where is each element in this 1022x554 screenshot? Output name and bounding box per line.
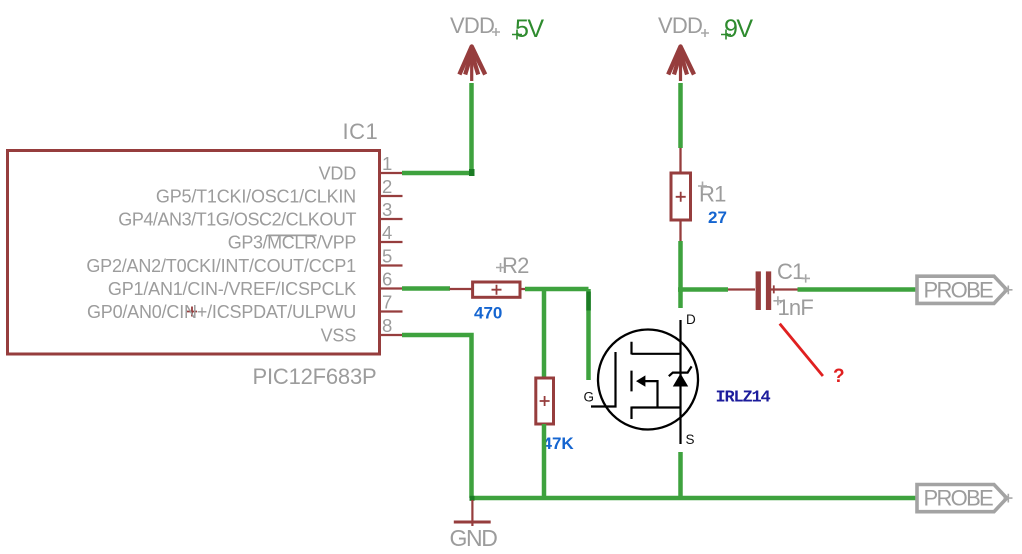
origin cross VDD label 2 (701, 29, 709, 37)
svg-text:VDD: VDD (450, 13, 494, 38)
resistor R1 (671, 148, 691, 241)
wire R2 to gate node (525, 287, 589, 292)
wire VDD2 supply to R1 (678, 83, 683, 148)
svg-text:IC1: IC1 (343, 119, 379, 144)
wire drain node to C1 (678, 287, 728, 292)
svg-text:1: 1 (382, 153, 392, 174)
mosfet gate lead (591, 352, 616, 407)
IC1 pin 7 GP0 (87, 291, 403, 322)
IC1 pin 1 VDD (319, 153, 403, 184)
capacitor C1 (728, 271, 798, 310)
supply symbol VDD (9V) arrow (668, 47, 694, 82)
svg-text:C1: C1 (777, 259, 804, 284)
svg-text:470: 470 (474, 304, 502, 323)
svg-text:GND: GND (450, 525, 498, 551)
gnd rail wire (472, 496, 918, 501)
origin cross C1 (802, 274, 811, 282)
svg-text:GP5/T1CKI/OSC1/CLKIN: GP5/T1CKI/OSC1/CLKIN (156, 186, 356, 206)
IC1 box (8, 151, 380, 355)
svg-text:5: 5 (382, 245, 392, 266)
mosfet D-S vertical line (679, 320, 681, 444)
origin cross 5V (512, 30, 522, 40)
body diode triangle (673, 374, 688, 387)
IC1 pin 3 GP4 (118, 199, 402, 230)
svg-text:VSS: VSS (321, 325, 357, 345)
wire pin6 to R2 (402, 286, 450, 291)
wire pin1 to VDD supply (402, 83, 472, 173)
wire node down to gate (586, 289, 591, 380)
svg-text:D: D (686, 312, 696, 327)
wire overlap dot rail corner (470, 496, 475, 501)
mosfet channel dashes (630, 342, 632, 419)
svg-text:6: 6 (382, 268, 392, 289)
svg-text:GP4/AN3/T1G/OSC2/CLKOUT: GP4/AN3/T1G/OSC2/CLKOUT (118, 209, 356, 229)
IC1 pin 5 GP2 (86, 245, 402, 276)
wire overlap segment gate wire (586, 292, 591, 311)
svg-text:IRLZ14: IRLZ14 (716, 389, 771, 408)
supply symbol VDD (5V) arrow (459, 47, 485, 82)
annotation red line (780, 324, 823, 376)
svg-text:VDD: VDD (319, 163, 357, 183)
wire pin8 to gnd rail (402, 335, 472, 498)
svg-text:5V: 5V (515, 15, 544, 43)
svg-text:GP0/AN0/CIN+/ICSPDAT/ULPWU: GP0/AN0/CIN+/ICSPDAT/ULPWU (87, 302, 356, 322)
IC1 pin 6 GP1 (108, 268, 403, 299)
svg-text:2: 2 (382, 176, 392, 197)
IC1 pin 8 VSS (321, 315, 403, 346)
svg-text:4: 4 (382, 222, 392, 243)
svg-text:9V: 9V (724, 15, 753, 43)
connector PROBE1 flag (917, 276, 1013, 303)
ground symbol GND (454, 500, 491, 526)
wire drain node to mosfet D (678, 290, 683, 309)
wire 47K to gnd rail (542, 424, 547, 498)
origin cross R2 (496, 263, 505, 272)
origin cross 1nF (773, 296, 782, 305)
resistor R2 (450, 282, 544, 297)
IC1 pin 4 GP3 (228, 222, 403, 253)
svg-text:GP2/AN2/T0CKI/INT/COUT/CCP1: GP2/AN2/T0CKI/INT/COUT/CCP1 (86, 256, 356, 276)
connector PROBE2 flag (917, 485, 1013, 512)
svg-text:GP1/AN1/CIN-/VREF/ICSPCLK: GP1/AN1/CIN-/VREF/ICSPCLK (108, 279, 356, 299)
mosfet drain tap (632, 353, 681, 355)
svg-text:7: 7 (382, 291, 392, 312)
resistor R3 47K (536, 378, 554, 424)
svg-text:8: 8 (382, 315, 392, 336)
wire junction down to 47K (542, 289, 547, 378)
wire R1 to drain node (678, 241, 683, 292)
IC1 origin cross (187, 307, 197, 317)
svg-text:VDD: VDD (658, 13, 702, 38)
svg-text:PIC12F683P: PIC12F683P (253, 364, 377, 389)
wire C1 to PROBE1 (798, 287, 918, 292)
wire mosfet S to gnd rail (678, 452, 683, 498)
svg-text:1nF: 1nF (778, 295, 814, 320)
svg-text:G: G (584, 390, 595, 405)
IC1 pin 2 GP5 (156, 176, 403, 207)
origin cross 9V (721, 30, 731, 40)
svg-text:S: S (686, 432, 695, 447)
mosfet substrate arrow (636, 375, 658, 407)
svg-text:R2: R2 (502, 253, 529, 278)
mosfet Q1 body circle (598, 330, 698, 430)
svg-text:?: ? (833, 366, 845, 387)
body diode cathode (669, 366, 692, 376)
svg-text:47K: 47K (543, 434, 575, 453)
svg-text:PROBE: PROBE (924, 486, 994, 511)
origin cross R1 (698, 182, 707, 191)
origin cross VDD label 1 (492, 28, 500, 36)
mosfet source tap (632, 406, 681, 408)
svg-text:3: 3 (382, 199, 392, 220)
svg-text:PROBE: PROBE (924, 277, 994, 302)
wire overlap dot pin1 corner (469, 169, 475, 176)
svg-text:27: 27 (708, 208, 727, 227)
